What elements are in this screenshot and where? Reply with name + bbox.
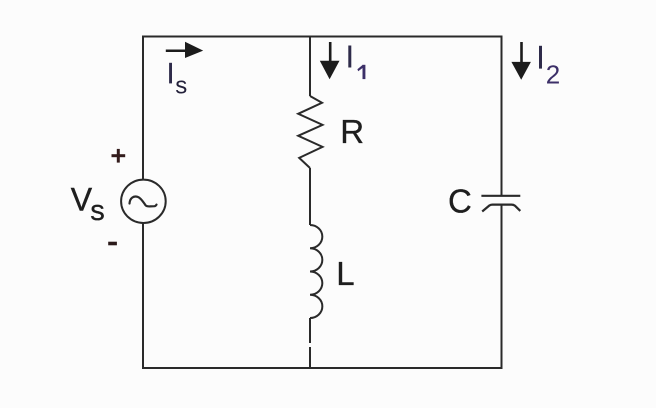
- label I1: [348, 46, 351, 68]
- wire right lower: [501, 205, 503, 369]
- wire middle upper: [309, 37, 311, 97]
- label I2: [539, 46, 542, 69]
- svg-text:s: s: [90, 195, 105, 227]
- capacitor C top plate: [481, 195, 520, 197]
- svg-text:R: R: [340, 113, 364, 150]
- wire middle lower seg2: [309, 347, 311, 369]
- plus sign: [112, 149, 126, 163]
- resistor R zigzag: [298, 96, 322, 168]
- voltage source sine squiggle: [130, 197, 157, 207]
- arrow I2: [511, 42, 531, 80]
- inductor L coils: [310, 225, 322, 318]
- arrow Is: [166, 42, 203, 58]
- svg-text:2: 2: [546, 60, 560, 90]
- arrow I1: [320, 42, 340, 79]
- wire middle lower seg1: [309, 318, 311, 343]
- svg-text:C: C: [448, 182, 472, 219]
- wire bottom: [142, 367, 502, 369]
- voltage source Vs circle: [121, 180, 166, 223]
- svg-text:L: L: [336, 255, 354, 292]
- wire middle between R and L: [309, 168, 311, 225]
- label Is: [169, 63, 172, 84]
- wire left upper: [142, 36, 144, 181]
- capacitor C bottom plate (curved): [482, 205, 520, 212]
- wire right upper: [501, 36, 503, 196]
- svg-text:s: s: [175, 73, 187, 100]
- wire top: [143, 36, 502, 38]
- minus sign: [108, 242, 117, 246]
- wire left lower: [142, 223, 144, 369]
